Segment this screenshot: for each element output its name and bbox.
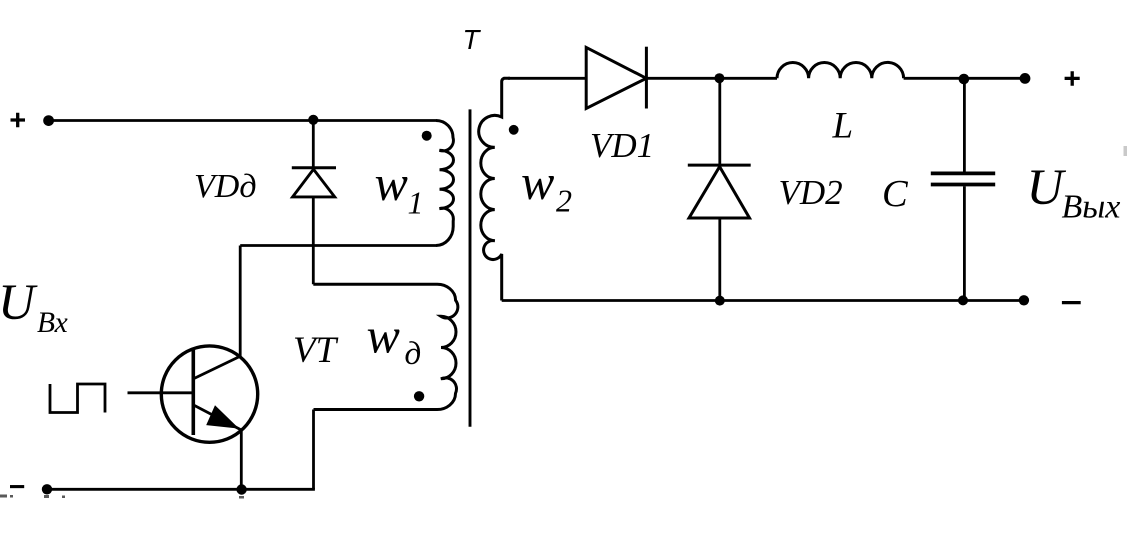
- node output plus terminal: [1020, 73, 1031, 84]
- node junction emitter/bottom rail: [236, 484, 246, 494]
- node junction VD2 top: [714, 73, 724, 83]
- transistor VT emitter diagonal: [194, 405, 241, 430]
- wire bottom-right rail: [502, 299, 1024, 302]
- minus input label: [10, 485, 24, 488]
- node junction VD2 bottom: [715, 296, 725, 306]
- minus output label: [1062, 301, 1081, 304]
- diode VDd triangle: [293, 169, 335, 197]
- plus terminal label (+, input): [11, 113, 26, 128]
- transformer T core: [469, 109, 472, 426]
- node phase dot wd: [414, 391, 424, 401]
- node junction VDd/top rail: [308, 115, 318, 125]
- svg-text:2: 2: [556, 183, 572, 219]
- wire bottom-left rail: [47, 488, 315, 491]
- wire top-right rail segment b: [646, 77, 777, 80]
- diode VD1 triangle: [586, 47, 646, 108]
- wire collector lead: [239, 246, 242, 357]
- wire capacitor bottom lead: [963, 186, 966, 300]
- node phase dot w1: [422, 131, 432, 141]
- transistor VT circle: [161, 346, 257, 442]
- svg-text:Вх: Вх: [37, 307, 68, 339]
- diode VD2 cathode bar: [688, 164, 751, 167]
- wire emitter lead: [240, 430, 243, 489]
- svg-text:T: T: [463, 24, 482, 55]
- svg-text:U: U: [0, 275, 38, 331]
- diode VDd cathode bar: [292, 166, 336, 169]
- svg-text:w: w: [375, 155, 408, 211]
- svg-text:д: д: [405, 336, 422, 372]
- svg-text:VT: VT: [293, 330, 339, 371]
- wire base lead: [128, 391, 194, 394]
- wire top-left rail: [49, 119, 436, 122]
- scan artifact mark right edge: [1124, 146, 1127, 156]
- svg-text:C: C: [882, 173, 909, 215]
- wire wd bottom lead vertical: [312, 410, 315, 490]
- node junction capacitor bottom: [958, 295, 968, 305]
- capacitor C top plate: [931, 171, 995, 175]
- diode VD2 triangle: [689, 167, 750, 218]
- wire VD2 anode lead: [718, 218, 721, 301]
- svg-text:w: w: [521, 154, 554, 210]
- wire VD2 cathode lead: [718, 78, 721, 165]
- wire capacitor top lead: [963, 78, 966, 171]
- transistor VT emitter arrow: [206, 405, 239, 428]
- winding wd (demagnetizing): [313, 284, 458, 409]
- node input plus terminal: [43, 115, 54, 126]
- node input minus terminal: [42, 484, 52, 494]
- svg-text:VD1: VD1: [590, 126, 654, 165]
- wire top-right rail segment a: [508, 77, 586, 80]
- inductor L: [777, 62, 904, 78]
- wire VDd anode lead: [312, 197, 315, 284]
- plus output label: [1065, 71, 1080, 86]
- svg-text:U: U: [1027, 160, 1067, 216]
- transistor VT collector diagonal: [194, 356, 240, 378]
- node output minus terminal: [1019, 295, 1029, 305]
- svg-text:w: w: [367, 308, 400, 364]
- capacitor C bottom plate: [931, 183, 995, 187]
- scan artifact specks bottom-left: [0, 495, 244, 499]
- transistor VT base bar: [192, 350, 196, 435]
- wire w1 bottom lead: [240, 244, 436, 247]
- wire VDd cathode lead: [312, 121, 315, 168]
- svg-text:VD2: VD2: [779, 173, 843, 212]
- svg-text:Вых: Вых: [1062, 189, 1121, 226]
- diode VD1 cathode bar: [645, 47, 648, 109]
- pulse source symbol: [50, 384, 105, 413]
- winding w2 (secondary): [479, 78, 510, 300]
- svg-text:L: L: [832, 106, 854, 147]
- node junction capacitor top: [959, 74, 970, 85]
- wire top-right rail segment c: [904, 77, 1025, 80]
- svg-text:1: 1: [408, 185, 424, 221]
- svg-text:VDд: VDд: [194, 168, 257, 205]
- node phase dot w2: [509, 125, 519, 135]
- winding w1 (primary): [436, 121, 454, 246]
